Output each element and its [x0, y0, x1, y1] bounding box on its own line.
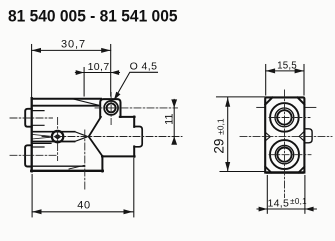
body rectangle — [265, 97, 304, 172]
screw circle vertical centerline — [57, 118, 59, 161]
drill cone to vertex — [75, 132, 87, 142]
dim 15,5 right extension — [303, 65, 305, 96]
dim 30,7 left extension — [31, 45, 33, 97]
body bottom thick line — [265, 171, 304, 173]
horizontal mid centerline — [240, 136, 332, 138]
arrow 30,7 right — [101, 48, 110, 53]
lower hole horizontal centerline — [269, 154, 311, 156]
arrow leader 4,5 — [114, 92, 121, 100]
arrow 29 bottom — [225, 162, 230, 171]
small hole axis line right — [305, 106, 316, 108]
main axis centerline — [42, 136, 182, 138]
svg-text:30,7: 30,7 — [61, 39, 86, 51]
bottom step chamfer diagonal — [69, 165, 84, 169]
arrow 10,7 right (outside) — [111, 70, 119, 75]
arrow 11 bottom (outside, points up) — [171, 136, 177, 144]
arrow 14,5 left (outside) — [259, 207, 268, 212]
dim 29 line — [227, 97, 229, 171]
svg-text:15,5: 15,5 — [277, 61, 297, 72]
dim 14,5 line — [257, 208, 316, 210]
dim 10,7 left extension — [83, 68, 85, 97]
arrow 15,5 right — [295, 68, 304, 73]
lower port centerline — [10, 154, 57, 156]
leader 4,5 — [115, 72, 158, 99]
upper hole counterbore circle — [275, 108, 294, 127]
lower hole counterbore circle — [275, 145, 293, 163]
upper port bore lines — [32, 111, 44, 126]
vertical hole axis centerline — [284, 90, 286, 198]
dim 14,5 right extension — [304, 176, 306, 214]
V notch lower diagonal — [89, 137, 103, 157]
arrow 40 right — [124, 209, 133, 214]
centerlines right view — [240, 90, 332, 198]
upper left port boss — [25, 109, 32, 127]
top inner line — [32, 105, 98, 107]
svg-text:10,7: 10,7 — [88, 61, 110, 73]
left mid notch — [265, 132, 270, 141]
boss hole circle (4.5 dia) — [107, 103, 116, 112]
outlet vertical centerline — [84, 130, 86, 190]
arrow 30,7 left — [32, 48, 41, 53]
right nub — [134, 127, 142, 147]
body bottom edge — [31, 170, 103, 172]
dim 15,5 line — [266, 70, 304, 72]
right mid notch — [299, 131, 304, 141]
upper hole bore circle — [277, 110, 291, 124]
body step right of bottom — [101, 156, 103, 171]
V notch upper diagonal — [89, 117, 101, 137]
top face taper diagonal — [73, 99, 98, 105]
lower port bore lines — [32, 146, 44, 148]
boss outer circle — [104, 101, 118, 115]
lower hole outer circle — [270, 140, 299, 169]
dim 40 left extension — [31, 175, 33, 217]
bottom-left chamfer — [265, 167, 271, 173]
body top-right shoulder — [120, 116, 135, 118]
top-right chamfer — [298, 98, 305, 105]
dim 40 right extension — [133, 159, 135, 217]
dim 30,7 right extension — [110, 45, 112, 97]
centerlines left view — [10, 93, 182, 191]
svg-text:O 4,5: O 4,5 — [130, 61, 158, 73]
body top edge — [32, 98, 101, 100]
top-left chamfer — [265, 98, 272, 105]
top boss (vertical port) — [100, 99, 120, 117]
dim 29 top extension — [217, 96, 266, 98]
svg-text:81 540 005 - 81 541 005: 81 540 005 - 81 541 005 — [8, 8, 178, 26]
boss hole horizontal centerline — [95, 107, 178, 109]
dim 29 bottom extension — [220, 171, 265, 173]
lower left port boss — [25, 145, 32, 166]
arrow 10,7 left (outside) — [76, 70, 84, 75]
svg-text:40: 40 — [77, 200, 90, 212]
dim 11 line — [173, 99, 175, 143]
body right edge lower — [133, 146, 135, 156]
upper port centerline — [10, 117, 53, 119]
body right edge upper — [133, 117, 135, 127]
upper hole outer circle — [270, 103, 299, 132]
bottom-right chamfer — [299, 167, 305, 173]
svg-text:11: 11 — [163, 113, 175, 124]
cross passage wall lines — [32, 132, 75, 142]
arrow 11 top (outside, points down) — [171, 99, 177, 107]
body lower-right bottom edge — [102, 155, 135, 157]
arrow 40 left — [32, 209, 41, 214]
bottom face step line — [32, 165, 85, 167]
small hole axis line left — [257, 106, 265, 108]
arrow 29 top — [225, 97, 230, 106]
screw slot center mark — [54, 134, 62, 139]
dim 14,5 left extension — [266, 176, 268, 214]
lower hole bore circle — [277, 148, 291, 162]
dim 40 line — [32, 211, 133, 213]
center screw circle — [52, 131, 63, 142]
lower passage second line — [32, 142, 51, 144]
upper hole horizontal centerline — [269, 117, 310, 119]
dim 10,7 line — [75, 72, 119, 74]
arrow 15,5 left — [266, 68, 275, 73]
right side tab — [304, 129, 312, 143]
dim 15,5 left extension — [265, 65, 267, 96]
body left edge — [31, 98, 33, 171]
passage wedge left of circle — [32, 134, 52, 139]
dim 30,7 line — [32, 49, 111, 51]
arrow 14,5 right (outside) — [305, 207, 314, 212]
boss hole vertical centerline — [110, 93, 112, 125]
